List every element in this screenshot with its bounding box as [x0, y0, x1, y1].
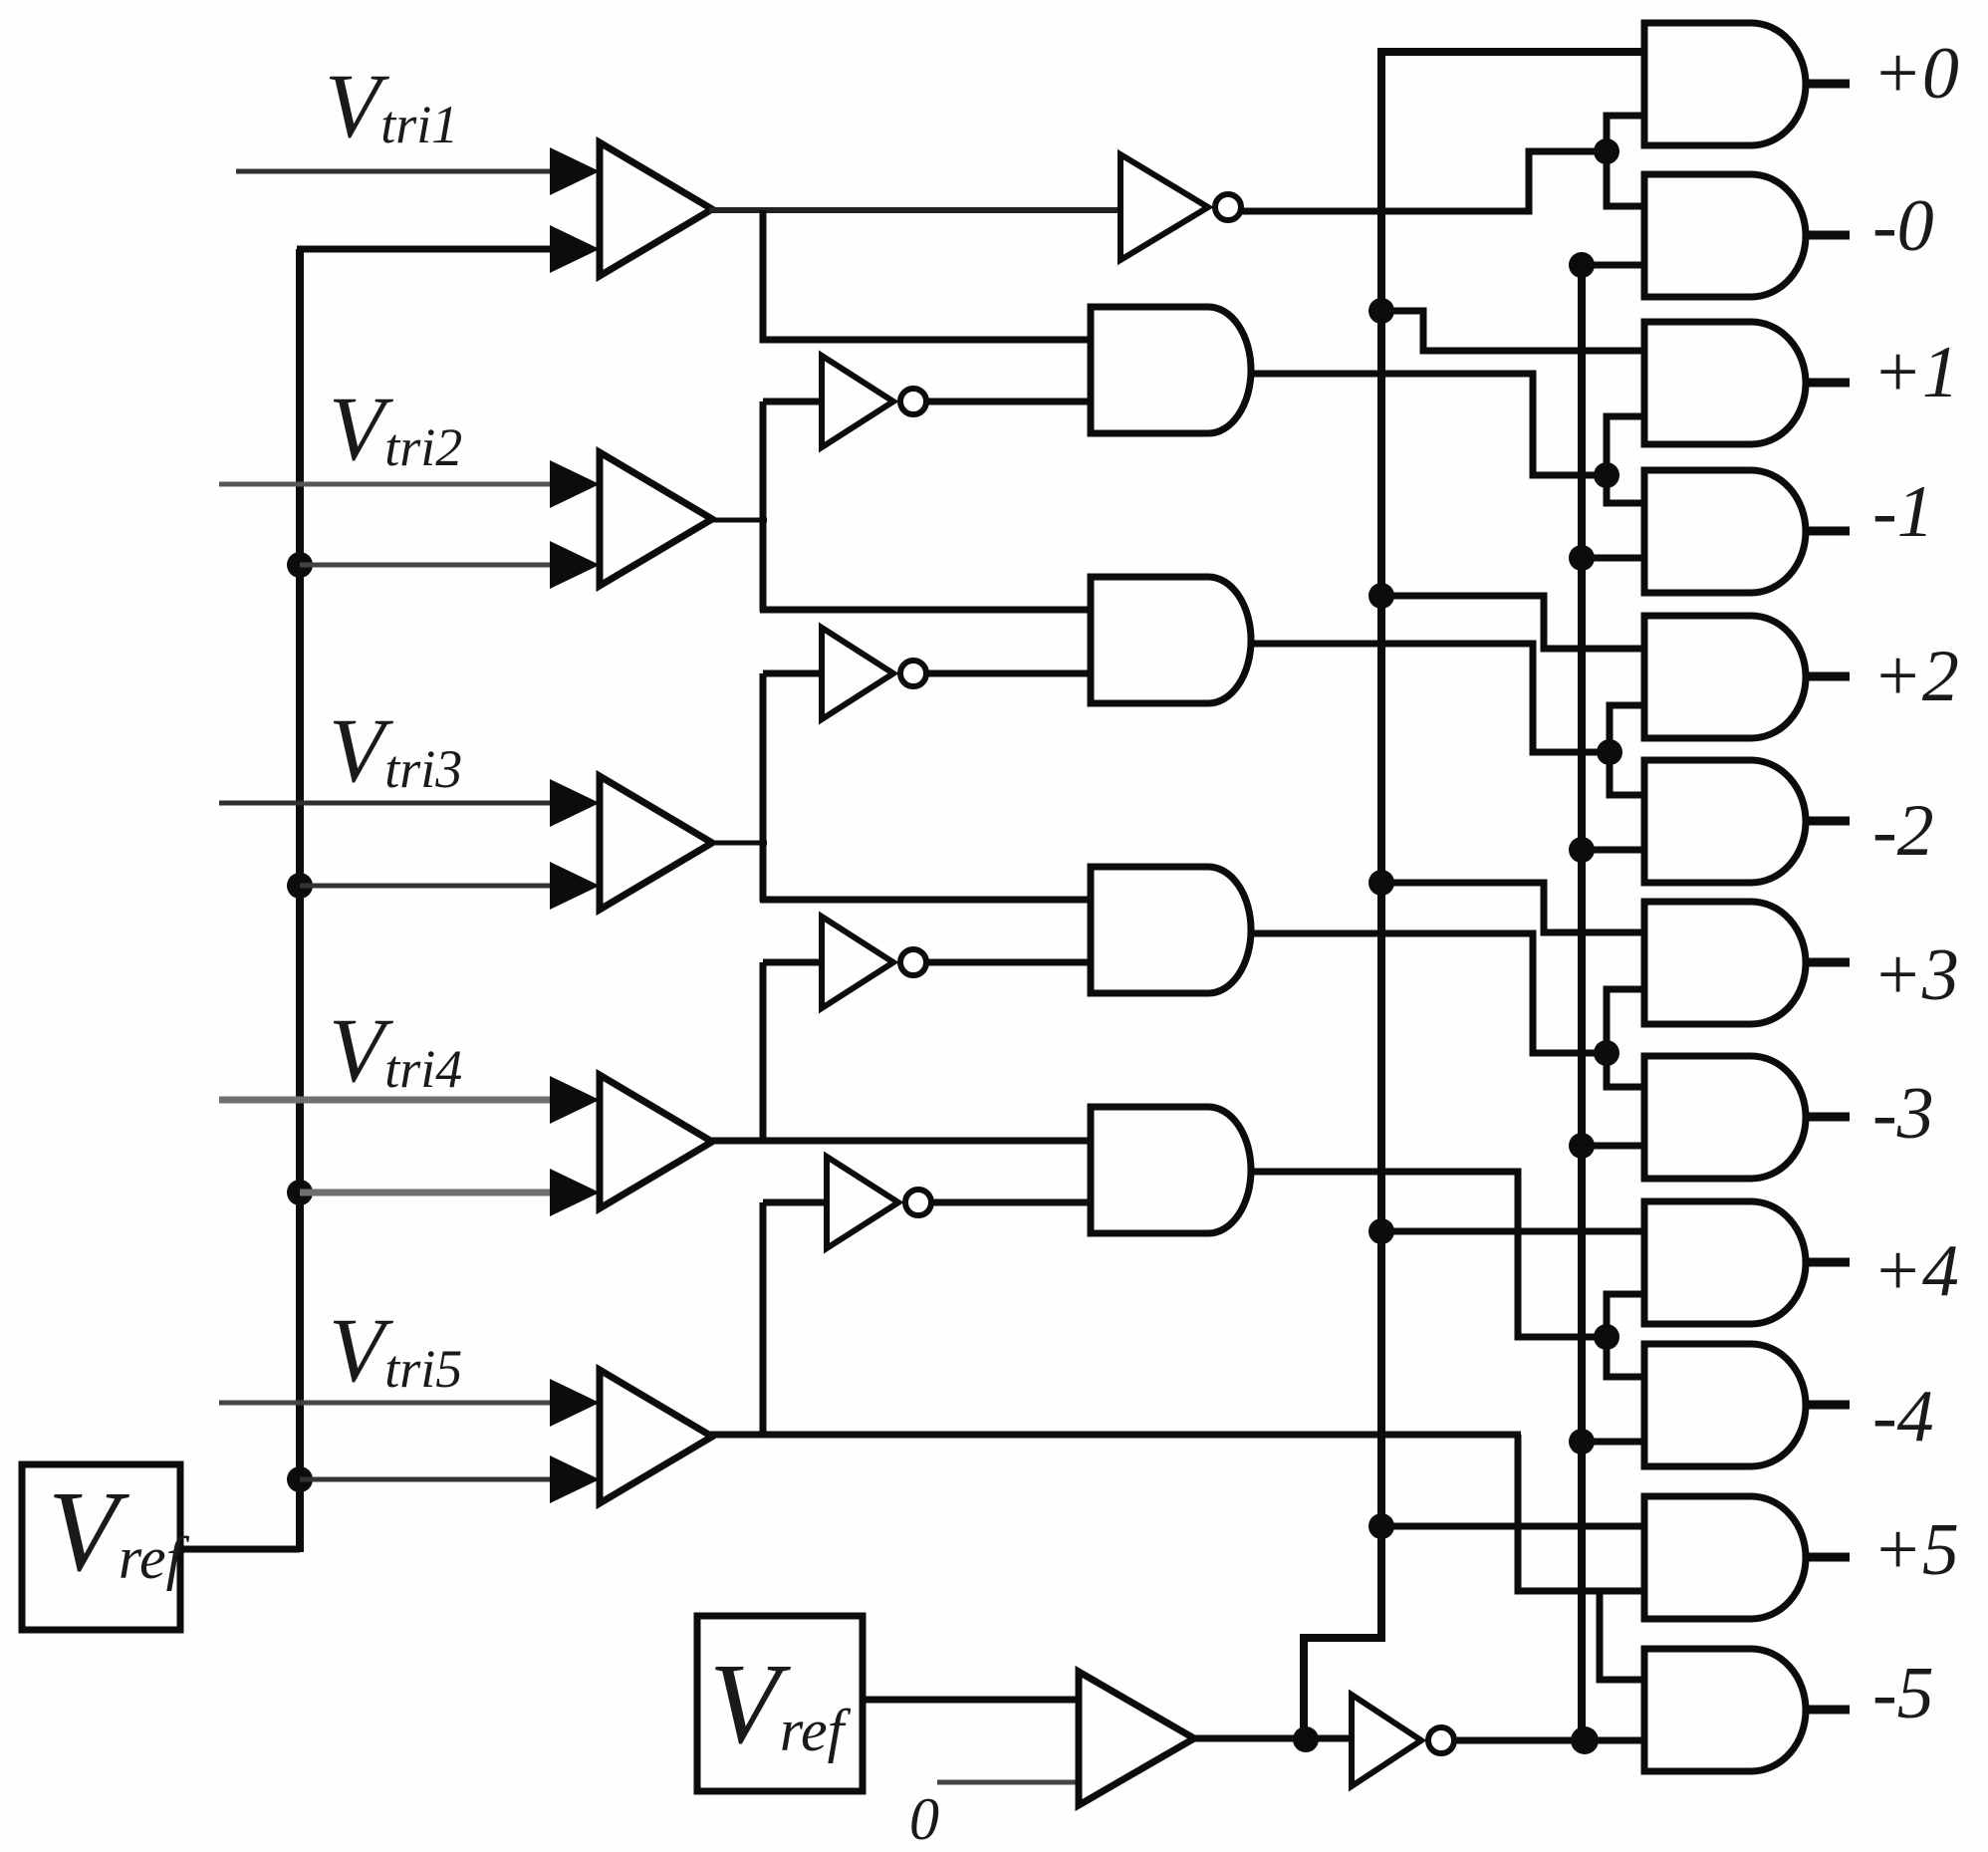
wire U5 chain to G-5 upper input	[1600, 1591, 1644, 1680]
node A2 feed junction	[1597, 739, 1622, 765]
node notS -3 junction	[1569, 1133, 1595, 1159]
comparator U4 input arrow 2	[550, 1169, 600, 1216]
node Vref-U2 junction	[287, 552, 313, 578]
wire notS to G-2 bottom input	[1582, 847, 1644, 854]
node notS -0 junction	[1569, 252, 1595, 278]
svg-text:-2: -2	[1872, 790, 1934, 872]
AND gate G-5 body	[1644, 1649, 1806, 1771]
inverter N5 body	[827, 1157, 898, 1248]
wire Vtri3 input line	[219, 801, 566, 806]
node Vref-U3 junction	[287, 873, 313, 899]
wire U3 output stub	[709, 841, 767, 846]
comparator U1 input arrow 1	[550, 147, 600, 195]
wire U2 to A2 top input	[760, 607, 1093, 614]
svg-text:+4: +4	[1872, 1230, 1959, 1312]
svg-text:0: 0	[909, 1786, 939, 1852]
node notS -4 junction	[1569, 1429, 1595, 1455]
wire U6 output to N6	[1191, 1735, 1355, 1742]
comparator U4 body	[600, 1075, 712, 1208]
comparator U2 input arrow 1	[550, 460, 600, 508]
wire branch to U3 input	[300, 884, 566, 889]
node notS bus bottom junction	[1571, 1726, 1599, 1754]
svg-text:-3: -3	[1872, 1073, 1934, 1155]
wire G+4 output stub	[1806, 1258, 1850, 1267]
AND gate G+0 body	[1644, 23, 1806, 145]
inverter N2 body	[822, 356, 893, 447]
AND gate G-2 body	[1644, 760, 1806, 883]
wire notS to G-1 bottom input	[1582, 555, 1644, 562]
wire to N5 input	[763, 1199, 830, 1206]
wire Vref box to bus	[180, 1546, 300, 1553]
wire Vtri1 input line	[236, 169, 566, 174]
wire Vref box to sign comparator	[863, 1697, 1082, 1704]
wire G+3 output stub	[1806, 958, 1850, 967]
wire Vtri5 input line	[219, 1401, 566, 1406]
wire sign bus S vertical x=1387 and to G+0 top input	[1304, 52, 1644, 1742]
source Vref (left box)	[22, 1464, 180, 1630]
node notS -2 junction	[1569, 837, 1595, 863]
wire notS to G-0 bottom input	[1582, 262, 1644, 269]
node U6 output junction	[1293, 1726, 1319, 1752]
wire G-5 output stub	[1806, 1706, 1850, 1715]
wire S to G+4 top input	[1381, 1228, 1644, 1235]
svg-text:-0: -0	[1872, 185, 1934, 267]
wire S to G+2 top input	[1381, 596, 1644, 649]
wire G+2 output stub	[1806, 672, 1850, 681]
AND gate G+3 body	[1644, 902, 1806, 1024]
wire to N2 input	[763, 398, 825, 405]
comparator U3 body	[600, 776, 712, 910]
wire A2 output to +2/-2 feed	[1251, 644, 1610, 752]
wire G+5 output stub	[1806, 1553, 1850, 1562]
inverter N6 bubble	[1428, 1727, 1454, 1753]
svg-text:+5: +5	[1872, 1509, 1959, 1591]
inverter N6 body	[1352, 1695, 1421, 1786]
wire U5 output long line	[709, 1432, 1521, 1439]
wire N6 output to G-5 bottom input	[1454, 1737, 1644, 1744]
svg-text:+2: +2	[1872, 636, 1959, 717]
AND gate G-0 body	[1644, 174, 1806, 297]
wire G+0 output stub	[1806, 80, 1850, 89]
wire U1 output branch to A1 top input	[763, 210, 1093, 340]
AND gate G-3 body	[1644, 1056, 1806, 1179]
wire feed to G+2 lower and G-2 upper inputs	[1610, 705, 1644, 795]
wire A1 output to +1/-1 feed	[1251, 374, 1607, 475]
wire feed to G+0 lower input and G-0 upper input	[1607, 116, 1644, 206]
comparator U6 (sign comparator) body	[1079, 1672, 1194, 1805]
wire U2 output vertical x=766	[760, 401, 767, 612]
inverter N4 bubble	[900, 949, 926, 975]
wire U4 output to A4 top input	[709, 1138, 1093, 1145]
comparator U4 input arrow 1	[550, 1076, 600, 1124]
inverter N3 body	[822, 628, 893, 719]
svg-text:-1: -1	[1872, 471, 1934, 553]
comparator U2 input arrow 2	[550, 541, 600, 589]
node Vref-U5 junction	[287, 1466, 313, 1492]
comparator U1 body	[600, 142, 712, 276]
node A4 feed junction	[1594, 1324, 1619, 1350]
comparator U3 input arrow 1	[550, 779, 600, 827]
wire A4 output to +4/-4 feed	[1251, 1172, 1607, 1337]
wire Vtri4 input line	[219, 1097, 566, 1104]
wire notS to G-4 bottom input	[1582, 1439, 1644, 1446]
comparator U5 input arrow 2	[550, 1455, 600, 1503]
inverter N5 bubble	[905, 1190, 931, 1215]
AND gate A1 body	[1091, 307, 1251, 433]
AND gate G+2 body	[1644, 616, 1806, 738]
wire U5 chain to G+5 lower input	[1518, 1435, 1644, 1591]
comparator U5 body	[600, 1370, 712, 1503]
wire inverted sign bus x=1588	[1578, 265, 1586, 1740]
inverter N2 bubble	[900, 389, 926, 414]
wire S to G+1 top input	[1381, 311, 1644, 351]
inverter N1 bubble	[1215, 194, 1241, 220]
node S bus +3 junction	[1368, 870, 1394, 896]
node A1 feed junction	[1594, 462, 1619, 488]
inverter N3 bubble	[900, 661, 926, 686]
wire U4 branch vertical x=766	[760, 962, 767, 1144]
node S bus +5 junction	[1368, 1513, 1394, 1539]
wire branch to U2 input	[300, 563, 566, 568]
comparator U5 input arrow 1	[550, 1379, 600, 1427]
wire Vref bus vertical x=301	[296, 249, 304, 1552]
inverter N1 body	[1120, 154, 1208, 260]
source Vref (bottom box)	[697, 1616, 863, 1791]
wire G-3 output stub	[1806, 1113, 1850, 1122]
svg-text:+0: +0	[1872, 33, 1959, 115]
AND gate G-1 body	[1644, 470, 1806, 593]
wire branch to U5 input	[300, 1477, 566, 1482]
wire Vref bus top branch to U1 input	[297, 246, 566, 253]
AND gate G+4 body	[1644, 1201, 1806, 1324]
AND gate G+1 body	[1644, 322, 1806, 444]
comparator U1 input arrow 2	[550, 225, 600, 273]
inverter N4 body	[822, 917, 893, 1008]
AND gate G-4 body	[1644, 1344, 1806, 1466]
AND gate A3 body	[1091, 867, 1251, 993]
wire G+1 output stub	[1806, 379, 1850, 388]
wire N1 output to +0/-0 feed	[1238, 151, 1607, 211]
svg-text:+1: +1	[1872, 332, 1959, 413]
AND gate A4 body	[1091, 1107, 1251, 1233]
wire U5 branch vertical x=766	[760, 1202, 767, 1438]
node S bus +4 junction	[1368, 1218, 1394, 1244]
wire U2 output stub	[709, 518, 767, 523]
wire G-0 output stub	[1806, 231, 1850, 240]
wire N4 output to A3 bottom input	[926, 959, 1093, 966]
wire feed to G+4 lower and G-4 upper inputs	[1607, 1294, 1644, 1377]
wire G-2 output stub	[1806, 817, 1850, 826]
wire feed to G+3 lower and G-3 upper inputs	[1607, 989, 1644, 1087]
wire branch to U4 input	[300, 1190, 566, 1196]
AND gate G+5 body	[1644, 1496, 1806, 1619]
wire G-1 output stub	[1806, 527, 1850, 536]
wire S to G+5 top input	[1381, 1523, 1644, 1530]
comparator U2 body	[600, 452, 712, 586]
wire A3 output to +3/-3 feed	[1251, 933, 1607, 1053]
wire U3 to A3 top input	[760, 897, 1093, 904]
wire G-4 output stub	[1806, 1401, 1850, 1410]
wire U3 output vertical x=766	[760, 673, 767, 902]
wire zero input line	[937, 1780, 1082, 1785]
node S bus +2 junction	[1368, 583, 1394, 609]
node Vref-U4 junction	[287, 1180, 313, 1205]
wire feed to G+1 lower and G-1 upper inputs	[1607, 416, 1644, 503]
wire N5 output to A4 bottom input	[931, 1199, 1093, 1206]
AND gate A2 body	[1091, 577, 1251, 703]
wire N2 output to A1 bottom input	[926, 398, 1093, 405]
svg-text:-5: -5	[1872, 1653, 1934, 1734]
node S bus +1 junction	[1368, 298, 1394, 324]
wire U1 output to N1	[709, 207, 1118, 213]
wire N3 output to A2 bottom input	[926, 670, 1093, 677]
node notS -1 junction	[1569, 545, 1595, 571]
wire to N4 input	[763, 959, 825, 966]
wire Vtri2 input line	[219, 482, 566, 487]
svg-text:+3: +3	[1872, 934, 1959, 1016]
wire notS to G-3 bottom input	[1582, 1143, 1644, 1150]
node N1 feed junction	[1594, 138, 1619, 164]
wire S to G+3 top input	[1381, 883, 1644, 932]
node A3 feed junction	[1594, 1040, 1619, 1066]
wire to N3 input	[763, 670, 825, 677]
svg-text:-4: -4	[1872, 1376, 1934, 1457]
comparator U3 input arrow 2	[550, 862, 600, 910]
